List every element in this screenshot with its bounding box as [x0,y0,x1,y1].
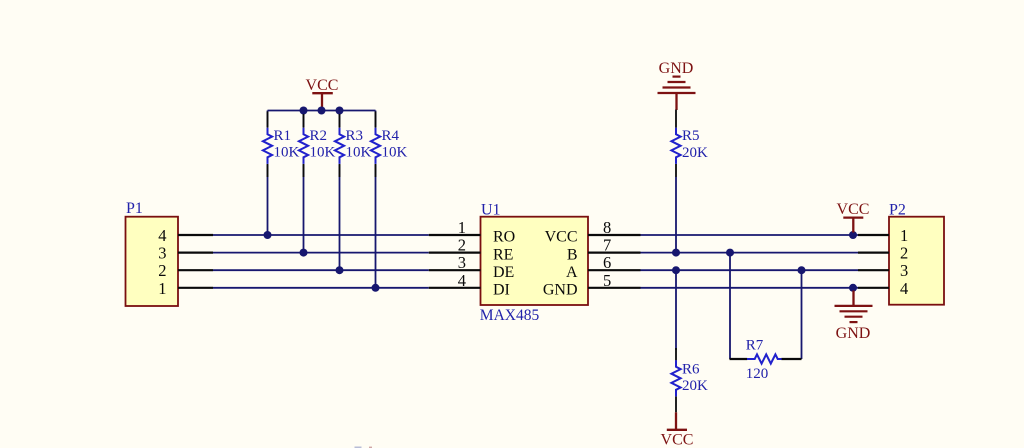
svg-text:VCC: VCC [306,77,339,94]
svg-text:R1: R1 [274,128,292,144]
svg-text:P2: P2 [889,202,906,219]
wire P1.1 to U1.DI [213,287,429,289]
svg-text:VCC: VCC [661,431,694,448]
wire P1.3 to U1.RE [213,252,429,254]
junction dot VCC/P2.1 [849,231,857,239]
resistor R1 [263,112,300,178]
wire U1.VCC to P2.1 [641,234,859,236]
op-amp U1 body [480,202,588,325]
svg-text:VCC: VCC [545,229,578,246]
svg-text:VCC: VCC [837,201,870,218]
svg-text:GND: GND [659,60,694,77]
svg-text:120: 120 [746,366,769,382]
U1 pin 4 (DI) [429,287,481,289]
svg-text:R6: R6 [682,362,700,378]
wire R1 vertical [267,111,269,128]
svg-text:2: 2 [900,244,908,263]
svg-text:DI: DI [493,282,510,299]
svg-text:R3: R3 [346,128,364,144]
svg-text:4: 4 [900,279,908,298]
svg-text:2: 2 [458,236,466,255]
partial title text (bottom edge) [355,447,362,448]
wire R3 vertical [339,111,341,128]
svg-text:R4: R4 [382,128,400,144]
junction dot R1/RO [264,231,272,239]
P1 pin 1 stub [178,287,213,289]
svg-text:R7: R7 [746,338,764,354]
power VCC (bottom) [661,412,694,448]
svg-text:7: 7 [603,236,611,255]
U1 pin 5 (GND) [588,287,641,289]
junction dot R5/B [672,249,680,257]
wire A to R6 [675,270,677,350]
junction dot R2 top [300,107,308,115]
svg-text:6: 6 [603,253,611,272]
junction dot R2/RE [300,249,308,257]
resistor R5 [671,110,708,177]
resistor R3 [335,114,372,177]
svg-text:10K: 10K [382,144,408,160]
power VCC (top) [306,77,339,111]
svg-text:RO: RO [493,229,515,246]
svg-text:10K: 10K [346,144,372,160]
svg-text:MAX485: MAX485 [480,307,540,324]
wire P1.2 to U1.DE [213,269,429,271]
svg-text:2: 2 [158,261,166,280]
svg-text:8: 8 [603,218,611,237]
svg-text:5: 5 [603,271,611,290]
wire R7 right to A [801,270,803,359]
U1 pin 2 (RE) [429,252,481,254]
wire VCC bus (top horizontal) [268,110,376,112]
junction dot R3/DE [336,266,344,274]
resistor R7 [730,338,802,382]
U1 pin 6 (A) [588,269,641,271]
connector P2 [889,202,944,305]
junction dot VCC stem [318,107,326,115]
junction dot R7/B [726,249,734,257]
junction dot R3 top [336,107,344,115]
svg-text:R2: R2 [310,128,328,144]
junction dot R6/A [672,266,680,274]
svg-text:3: 3 [458,253,466,272]
junction dot GND/P2.4 [849,284,857,292]
svg-text:3: 3 [900,261,908,280]
P1 pin 4 stub [178,234,213,236]
svg-text:A: A [566,264,578,281]
svg-text:10K: 10K [310,144,336,160]
U1 pin 3 (DE) [429,269,481,271]
svg-text:P1: P1 [126,200,143,217]
svg-text:B: B [567,246,578,263]
svg-text:RE: RE [493,246,513,263]
P2 pin 3 stub [858,269,889,271]
wire B to R7 left [729,253,731,359]
svg-text:1: 1 [458,218,466,237]
connector P1 [126,200,179,306]
junction dot R7/A [798,266,806,274]
wire U1.GND to P2.4 [641,287,859,289]
P1 pin 2 stub [178,269,213,271]
U1 pin 8 (VCC) [588,234,641,236]
svg-text:4: 4 [158,226,166,245]
wire R4 vertical [375,111,377,128]
svg-text:1: 1 [900,226,908,245]
P2 pin 1 stub [858,234,889,236]
P2 pin 2 stub [858,252,889,254]
svg-text:GND: GND [543,282,578,299]
ground GND (top) [658,60,696,110]
resistor R4 [371,112,408,178]
power VCC (P2) [837,201,870,233]
wire U1.B to P2.2 [641,252,859,254]
svg-text:20K: 20K [682,145,708,161]
P1 pin 3 stub [178,252,213,254]
ground GND (P2) [835,291,873,343]
svg-text:3: 3 [158,244,166,263]
wire U1.A to P2.3 [641,269,859,271]
resistor R2 [299,114,336,177]
svg-text:1: 1 [158,279,166,298]
svg-text:10K: 10K [274,144,300,160]
junction dot R4/DI [372,284,380,292]
svg-text:4: 4 [458,271,466,290]
U1 pin 7 (B) [588,252,641,254]
U1 pin 1 (RO) [429,234,481,236]
wire R5 to B [675,177,677,253]
svg-text:GND: GND [836,325,871,342]
svg-text:U1: U1 [481,202,501,219]
wire R2 vertical [303,111,305,128]
wire P1.4 to U1.RO [213,234,429,236]
svg-text:R5: R5 [682,128,700,144]
svg-text:20K: 20K [682,378,708,394]
P2 pin 4 stub [858,287,889,289]
svg-text:DE: DE [493,264,514,281]
resistor R6 [671,348,708,412]
